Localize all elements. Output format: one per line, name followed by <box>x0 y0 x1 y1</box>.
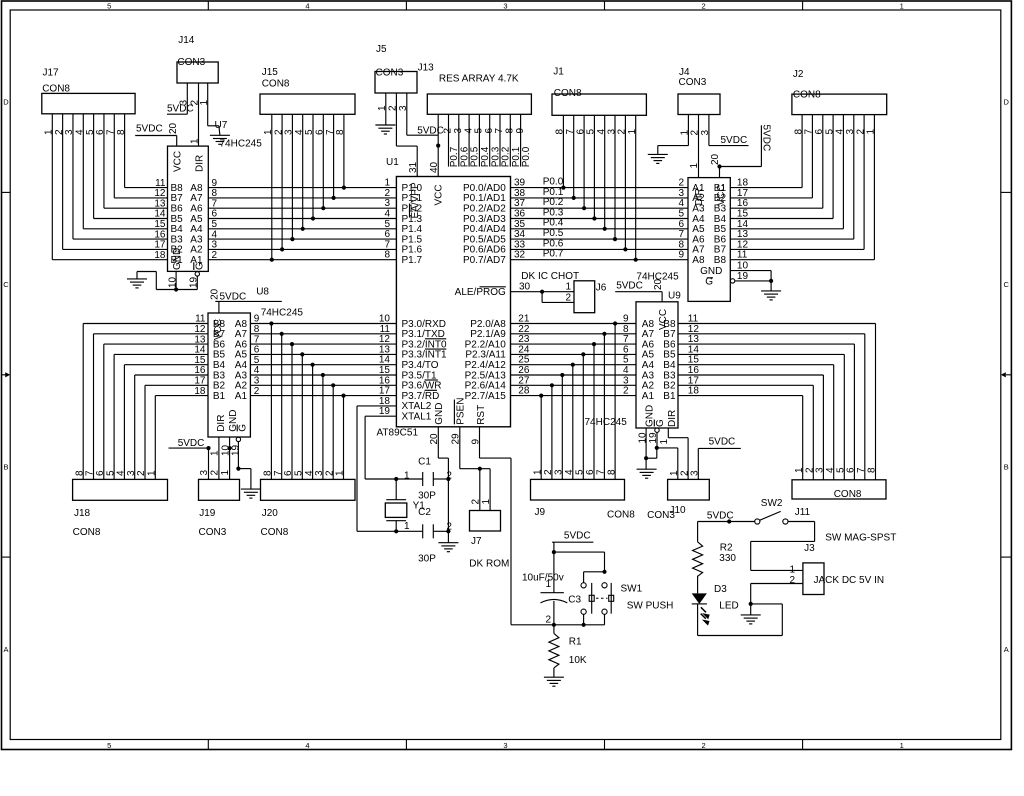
op-amp U7 74HC245 buffer <box>168 146 209 271</box>
label LED <box>719 601 738 612</box>
svg-text:10: 10 <box>737 261 749 272</box>
wire XTAL1 to crystal <box>365 416 398 481</box>
svg-text:PSEN: PSEN <box>455 398 466 425</box>
svg-text:A1: A1 <box>235 391 248 402</box>
op-amp U8 74HC245 buffer <box>208 313 250 437</box>
ground at J5 <box>375 125 395 134</box>
label J9 <box>535 507 546 518</box>
svg-text:20: 20 <box>710 153 721 165</box>
svg-text:2: 2 <box>546 614 552 625</box>
svg-text:DIR: DIR <box>216 415 227 432</box>
top buffer pin1 number <box>689 163 700 169</box>
svg-text:D: D <box>1003 98 1009 107</box>
wires J15 pins to P1 bus with junctions <box>270 114 346 262</box>
svg-text:SW2: SW2 <box>761 498 783 509</box>
svg-text:8: 8 <box>606 469 617 475</box>
svg-text:CON8: CON8 <box>607 510 635 521</box>
label J19 <box>199 508 216 519</box>
svg-text:G: G <box>238 424 249 432</box>
label DK IC CHOT <box>521 271 579 282</box>
svg-text:19: 19 <box>231 444 242 456</box>
svg-text:JACK DC 5V IN: JACK DC 5V IN <box>814 575 885 586</box>
power 5VDC rail to buffer pin20 <box>710 125 772 178</box>
wires J20 pins to P3 bus with junctions <box>269 321 345 479</box>
connector CON8 bottom-right <box>792 480 886 499</box>
svg-text:B1: B1 <box>213 391 226 402</box>
power 5VDC at reset <box>552 531 593 543</box>
U1 bottom rotated labels GND PSEN RST <box>434 398 487 425</box>
svg-text:30: 30 <box>519 282 531 293</box>
svg-text:GND: GND <box>434 403 445 425</box>
svg-text:D3: D3 <box>714 584 727 595</box>
U7 pin20 wire <box>168 122 179 146</box>
zone dividers bottom band <box>208 740 802 750</box>
wire LED return loop <box>698 604 783 636</box>
wire XTAL2 to crystal <box>357 406 398 534</box>
svg-text:31: 31 <box>408 161 419 173</box>
label CON8 of J1 <box>554 88 582 99</box>
connector J20 <box>261 479 356 500</box>
label 74HC245 of U8 <box>261 308 304 319</box>
svg-text:B: B <box>3 462 8 471</box>
svg-text:J1: J1 <box>553 67 564 78</box>
svg-text:CON8: CON8 <box>262 78 290 89</box>
power 5VDC at U9 pin20 <box>615 278 664 301</box>
svg-text:4: 4 <box>305 2 309 11</box>
op-amp U9 74HC245 buffer <box>636 302 678 428</box>
svg-text:RES ARRAY 4.7K: RES ARRAY 4.7K <box>439 74 519 85</box>
label CON3 of J5 <box>376 67 404 78</box>
J3 pin numbers <box>789 564 795 586</box>
svg-text:19: 19 <box>648 432 659 444</box>
svg-text:30P: 30P <box>418 491 436 502</box>
svg-text:5VDC: 5VDC <box>721 135 748 146</box>
wire J4 pin2 to buffer DIR <box>698 115 700 178</box>
svg-text:GND: GND <box>700 266 722 277</box>
svg-text:DK ROM: DK ROM <box>469 559 509 570</box>
label U9 <box>668 290 681 301</box>
connector J14 <box>177 62 218 83</box>
U7 left pin numbers 11-18 <box>154 178 166 261</box>
power label 5VDC at J10 <box>709 437 736 448</box>
svg-text:EA/VPP: EA/VPP <box>410 182 421 218</box>
label CON8 of J17 <box>42 84 70 95</box>
svg-text:P1.7: P1.7 <box>402 255 423 266</box>
svg-text:2: 2 <box>702 741 706 750</box>
label CON8 of J20 <box>261 527 289 538</box>
svg-text:XTAL1: XTAL1 <box>402 412 432 423</box>
op-amp U2 74HC245 buffer top-right <box>688 178 730 302</box>
connector J3 jack <box>803 563 824 595</box>
svg-text:A: A <box>1004 645 1009 654</box>
svg-text:DIR: DIR <box>194 155 205 172</box>
svg-text:CON3: CON3 <box>376 67 404 78</box>
svg-text:1: 1 <box>335 470 346 476</box>
zone numbers bottom <box>107 741 904 750</box>
label J17 <box>43 68 60 79</box>
connector J15 <box>260 94 355 114</box>
svg-text:J9: J9 <box>535 507 546 518</box>
wire U1 GND pin20 to ground <box>438 427 448 543</box>
U9 GND G DIR pins wiring <box>637 428 688 479</box>
svg-text:1: 1 <box>404 521 410 532</box>
label J14 <box>178 35 195 46</box>
wire bus P0 rows U1 to buffer <box>511 188 689 260</box>
net labels P0.0-P0.7 <box>543 177 564 260</box>
svg-text:1: 1 <box>210 450 221 456</box>
svg-text:19: 19 <box>737 271 749 282</box>
label 30P of C1 <box>418 491 436 502</box>
svg-text:20: 20 <box>209 288 220 300</box>
wire U8 DIR to J19 pin2 <box>210 437 221 479</box>
svg-text:J19: J19 <box>199 508 216 519</box>
diode D3 LED <box>692 576 709 636</box>
microcontroller U1 AT89C51 <box>396 177 510 427</box>
svg-text:A8: A8 <box>692 255 705 266</box>
wire PSEN to J7 <box>460 427 490 511</box>
power 5VDC at U7 pin20 <box>135 124 177 136</box>
label Y1 <box>413 501 426 512</box>
svg-text:R2: R2 <box>720 543 733 554</box>
J4 pin numbers 1,2,3 <box>680 130 712 136</box>
top buffer internal labels <box>692 183 727 288</box>
label D3 <box>714 584 727 595</box>
svg-text:U8: U8 <box>256 287 269 298</box>
svg-text:R1: R1 <box>569 637 582 648</box>
svg-text:40: 40 <box>429 161 440 173</box>
ground at J14 <box>210 135 230 144</box>
label U1 <box>386 157 399 168</box>
label J10 <box>670 505 687 516</box>
J15 pin numbers 1-8 <box>263 129 346 135</box>
svg-text:J2: J2 <box>793 69 804 80</box>
svg-text:CON8: CON8 <box>834 489 862 500</box>
svg-text:9: 9 <box>515 128 526 134</box>
svg-text:2: 2 <box>212 250 218 261</box>
wires J1 pins to P0 bus with junctions <box>561 115 638 262</box>
svg-text:330: 330 <box>719 553 736 564</box>
label CON3 of J19 <box>199 527 227 538</box>
power 5VDC at J14 <box>167 103 194 114</box>
label J6 <box>596 282 607 293</box>
U1 left pin numbers 10-17 <box>379 314 391 397</box>
label J7 <box>471 536 482 547</box>
label J1 <box>553 67 564 78</box>
wire 5VDC to C3 and SW1 <box>552 542 607 574</box>
capacitor C2 <box>396 524 450 538</box>
svg-text:8: 8 <box>867 467 878 473</box>
ground below U9 <box>637 469 657 478</box>
label R2 <box>720 543 733 554</box>
ground at J4 <box>648 154 668 163</box>
svg-text:4: 4 <box>305 741 309 750</box>
svg-text:19: 19 <box>379 406 391 417</box>
wire J4 pin3 to 5VDC <box>709 115 749 146</box>
svg-text:CON8: CON8 <box>73 527 101 538</box>
svg-text:1: 1 <box>546 579 552 590</box>
centering arrow left <box>2 372 11 377</box>
svg-text:2: 2 <box>565 293 571 304</box>
wires U7 A outputs to U1 P1 rows <box>208 178 396 261</box>
svg-text:J11: J11 <box>795 507 811 518</box>
label CON3 of J14 <box>177 57 205 68</box>
wire J10 pin3 to 5VDC <box>698 448 741 479</box>
svg-text:20: 20 <box>653 278 664 290</box>
ground at J19 <box>241 489 261 498</box>
svg-text:B1: B1 <box>663 391 676 402</box>
svg-text:74HC245: 74HC245 <box>585 417 628 428</box>
J7 pin numbers 2,1 <box>471 499 492 505</box>
svg-text:GND: GND <box>172 248 183 270</box>
top buffer left pin numbers 2-9 <box>678 178 684 261</box>
connector J1 <box>552 94 646 115</box>
svg-text:18: 18 <box>688 386 700 397</box>
label 30P of C2 <box>418 554 436 565</box>
resistor array J13 <box>427 94 531 114</box>
connector J2 <box>792 94 887 115</box>
U7 pin1 number <box>190 138 201 144</box>
label SW2 <box>761 498 783 509</box>
power 5VDC at SW2 <box>698 510 755 523</box>
svg-text:74HC245: 74HC245 <box>261 308 304 319</box>
connector J4 <box>678 94 720 115</box>
label J18 <box>74 508 91 519</box>
svg-text:5: 5 <box>107 741 111 750</box>
svg-text:5VDC: 5VDC <box>564 531 591 542</box>
svg-text:20: 20 <box>168 122 179 134</box>
switch SW2 <box>755 511 788 524</box>
connector J6 <box>574 281 595 313</box>
wire RST to reset circuit <box>480 427 605 625</box>
label CON8 bottom-right <box>834 489 862 500</box>
zone numbers top <box>107 2 904 11</box>
label CON8 of J2 <box>793 90 821 101</box>
svg-text:J5: J5 <box>376 44 387 55</box>
U1 ALE/PROG label <box>455 287 506 298</box>
label J2 <box>793 69 804 80</box>
wires J18 pins to U8 B inputs <box>83 324 208 480</box>
U1 pin30 number <box>519 282 531 293</box>
U8 left pin numbers 11-18 <box>194 314 206 397</box>
J14 pin numbers 3,2,1 <box>179 100 210 106</box>
svg-text:C3: C3 <box>568 595 581 606</box>
svg-text:10: 10 <box>168 276 179 288</box>
svg-text:11: 11 <box>737 250 748 261</box>
svg-text:U1: U1 <box>386 157 399 168</box>
label DK ROM <box>469 559 509 570</box>
svg-text:30P: 30P <box>418 554 436 565</box>
label 10uF/50v <box>522 572 564 583</box>
label J5 <box>376 44 387 55</box>
wire J13 pin1 to U1 VCC pin40 <box>429 114 440 176</box>
svg-text:G: G <box>195 262 206 270</box>
svg-text:AT89C51: AT89C51 <box>377 427 419 438</box>
U1 P1 pin numbers 1-8 <box>384 178 390 261</box>
U1 right pin numbers 21-28 <box>518 314 530 397</box>
svg-text:SW MAG-SPST: SW MAG-SPST <box>825 533 896 544</box>
U1 XTAL labels <box>402 401 432 422</box>
label RES ARRAY 4.7K <box>439 74 519 85</box>
svg-text:J18: J18 <box>74 508 91 519</box>
U1 VCC rotated label <box>433 184 444 205</box>
U1 left port labels P3.x <box>402 319 447 402</box>
top buffer right pin numbers 18-11 <box>737 178 749 261</box>
svg-text:28: 28 <box>518 386 530 397</box>
svg-text:CON3: CON3 <box>679 77 707 88</box>
wire J14 pin1 to ground <box>208 83 220 135</box>
power label 5VDC near J13 <box>417 125 444 136</box>
svg-text:7: 7 <box>856 467 867 473</box>
label SW PUSH <box>627 601 674 612</box>
label C1 <box>418 456 431 467</box>
wire 5VDC to J19 pin3 <box>208 448 210 479</box>
power 5VDC at J19 <box>169 438 211 450</box>
label 74HC245 of U9 <box>585 417 628 428</box>
U7 internal labels <box>171 151 206 270</box>
wires U9 B outputs to CON8 <box>678 324 876 480</box>
svg-text:VCC: VCC <box>433 184 444 205</box>
svg-text:ALE/PROG: ALE/PROG <box>455 287 506 298</box>
svg-text:J20: J20 <box>262 508 279 519</box>
svg-text:1: 1 <box>689 163 700 169</box>
wire bus P2 rows U1 to U9 <box>511 314 637 397</box>
power 5VDC at U8 pin20 <box>209 288 281 313</box>
U9 right pin numbers 11-18 <box>688 314 700 397</box>
wire ALE/PROG to J6 <box>511 290 575 303</box>
label J15 <box>262 67 279 78</box>
svg-text:CON8: CON8 <box>261 527 289 538</box>
label AT89C51 <box>377 427 419 438</box>
label U8 <box>256 287 269 298</box>
svg-text:CON8: CON8 <box>42 84 70 95</box>
svg-text:CON8: CON8 <box>793 90 821 101</box>
svg-text:U9: U9 <box>668 290 681 301</box>
wires J17 pins to U7 B inputs <box>52 114 167 260</box>
ground below R1 <box>544 677 564 686</box>
svg-text:SW1: SW1 <box>621 584 643 595</box>
power label 5VDC at J4 <box>721 135 748 146</box>
svg-text:2: 2 <box>702 2 706 11</box>
U1 pin31 number <box>408 161 419 173</box>
ground at J3 <box>741 615 761 624</box>
ground below crystal circuit <box>438 543 458 552</box>
connector J9 <box>531 479 625 500</box>
crystal Y1 <box>385 479 407 531</box>
svg-text:9: 9 <box>678 250 684 261</box>
svg-text:8: 8 <box>384 250 390 261</box>
svg-text:5VDC: 5VDC <box>761 125 772 152</box>
ground below top buffer <box>761 291 781 300</box>
J6 pin numbers <box>565 282 571 304</box>
svg-text:P0.7/AD7: P0.7/AD7 <box>463 255 506 266</box>
svg-text:A: A <box>3 645 8 654</box>
label SW1 <box>621 584 643 595</box>
C1 pin numbers <box>404 470 452 481</box>
svg-text:10uF/50v: 10uF/50v <box>522 572 564 583</box>
svg-text:1: 1 <box>900 2 904 11</box>
J2 pin numbers 8-1 <box>793 129 876 135</box>
svg-text:J17: J17 <box>43 68 60 79</box>
svg-text:2: 2 <box>446 521 452 532</box>
U1 left port labels P1.x <box>402 183 423 266</box>
U1 EA/VPP rotated label <box>410 182 421 218</box>
svg-text:C2: C2 <box>418 507 431 518</box>
J9 pin numbers 1-8 <box>532 469 617 475</box>
svg-text:2: 2 <box>623 386 629 397</box>
svg-text:1: 1 <box>900 741 904 750</box>
svg-text:5VDC: 5VDC <box>417 125 444 136</box>
label 330 <box>719 553 736 564</box>
label J13 <box>418 62 435 73</box>
svg-text:J14: J14 <box>178 35 195 46</box>
label CON8 of J9 <box>607 510 635 521</box>
J17 pin numbers 1-8 <box>44 129 127 135</box>
svg-text:P2.7/A15: P2.7/A15 <box>465 391 507 402</box>
wire J4 pin1 to ground <box>658 115 689 155</box>
zone dividers side bands <box>2 192 1012 557</box>
C2 pin numbers <box>404 521 452 533</box>
J18 pin numbers 8-1 <box>74 470 157 476</box>
connector J10 <box>668 479 710 500</box>
J19 pin numbers 3,2,1 <box>199 470 231 476</box>
svg-text:J3: J3 <box>804 543 815 554</box>
connector J18 <box>73 479 168 500</box>
svg-text:7: 7 <box>596 469 607 475</box>
J13 pins 2-9 with P0 net labels <box>443 114 533 167</box>
U9 internal labels <box>642 309 678 427</box>
zone letters right <box>1003 98 1009 654</box>
svg-text:P0.7: P0.7 <box>543 249 564 260</box>
U1 right port labels P0.x/ADx <box>463 183 506 266</box>
svg-text:B: B <box>1004 462 1009 471</box>
C3 pin numbers <box>546 579 552 625</box>
U1 right port labels P2.x/Ax <box>465 319 507 402</box>
svg-text:DK IC CHOT: DK IC CHOT <box>521 271 579 282</box>
svg-text:J13: J13 <box>418 62 435 73</box>
svg-text:C: C <box>1003 280 1009 289</box>
label CON3 of J10 <box>647 510 675 521</box>
U1 bottom pin numbers 20 29 9 <box>429 433 481 445</box>
svg-text:CON8: CON8 <box>554 88 582 99</box>
svg-text:C: C <box>3 280 9 289</box>
connector J17 <box>42 93 135 113</box>
wire J5 pin2 to U1 EA pin31 <box>396 93 417 177</box>
svg-text:18: 18 <box>154 250 166 261</box>
wire J5 pin1 to ground <box>385 93 387 125</box>
label 74HC245 of U7 <box>220 139 263 150</box>
wires J2 pins to buffer B outputs <box>730 115 874 260</box>
svg-text:2: 2 <box>543 469 554 475</box>
svg-text:1: 1 <box>789 564 795 575</box>
CON8 bottom-right pin numbers 1-8 <box>794 467 878 473</box>
U8 internal labels <box>213 319 249 432</box>
svg-text:3: 3 <box>503 2 507 11</box>
svg-text:3: 3 <box>503 741 507 750</box>
svg-text:32: 32 <box>514 250 526 261</box>
svg-text:J6: J6 <box>596 282 607 293</box>
zone dividers top band <box>208 1 802 10</box>
resistor R1 <box>549 625 559 677</box>
top buffer GND G wires to ground <box>730 261 773 291</box>
wires P2 bus to J9 with junctions <box>539 321 617 479</box>
label U7 <box>215 120 228 131</box>
svg-text:LED: LED <box>719 601 738 612</box>
svg-text:19: 19 <box>189 276 200 288</box>
label C2 <box>418 507 431 518</box>
svg-text:2: 2 <box>254 386 260 397</box>
svg-text:6: 6 <box>585 469 596 475</box>
svg-text:2: 2 <box>446 470 452 481</box>
